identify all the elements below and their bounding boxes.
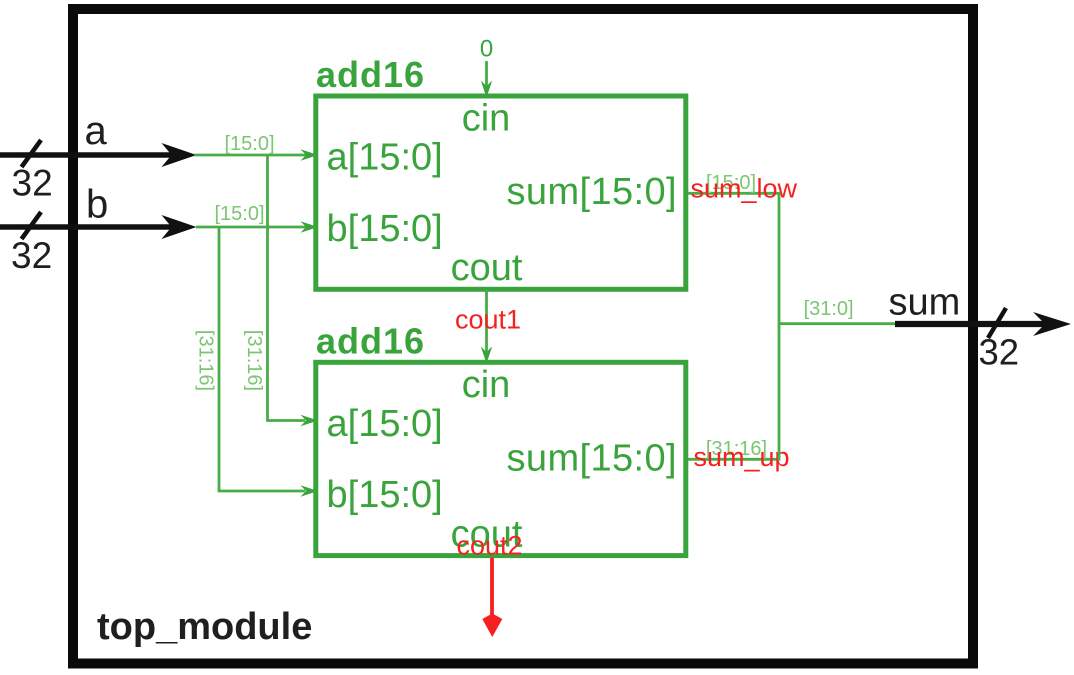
- net b[15:0] wire: [196, 226, 314, 229]
- svg-text:add16: add16: [316, 320, 425, 361]
- net a[15:0] wire: [194, 154, 314, 157]
- svg-text:b[15:0]: b[15:0]: [327, 208, 443, 250]
- arrowhead cin (upper adder): [481, 81, 492, 98]
- net a[31:16] wire (vertical branch to lower adder): [268, 155, 306, 421]
- wire b (32-bit input): [0, 224, 174, 230]
- svg-text:sum_up: sum_up: [694, 442, 790, 472]
- svg-text:a: a: [85, 109, 108, 153]
- arrowhead cin (lower adder): [481, 347, 492, 364]
- arrowhead b[15:0] port: [301, 221, 319, 232]
- output wire sum: [895, 321, 1047, 327]
- svg-text:a[15:0]: a[15:0]: [327, 137, 443, 179]
- arrowhead b[31:16] port: [301, 485, 319, 496]
- module instance add16 (upper adder): [316, 96, 686, 289]
- svg-text:32: 32: [12, 163, 53, 204]
- arrowhead a[15:0] port: [301, 149, 319, 160]
- arrowhead input b: [162, 215, 197, 239]
- svg-text:cout: cout: [451, 247, 523, 289]
- svg-text:add16: add16: [316, 54, 425, 95]
- svg-text:[31:16]: [31:16]: [195, 330, 217, 391]
- wire a (32-bit input): [0, 152, 174, 158]
- net sum_up wire: [688, 458, 780, 461]
- net sum_low wire: [688, 192, 780, 195]
- arrowhead output sum: [1033, 312, 1071, 336]
- svg-text:[15:0]: [15:0]: [224, 133, 274, 155]
- svg-text:b: b: [86, 183, 108, 227]
- svg-text:[31:0]: [31:0]: [804, 298, 854, 320]
- svg-text:sum[15:0]: sum[15:0]: [507, 437, 677, 479]
- svg-text:sum_low: sum_low: [691, 174, 798, 204]
- svg-text:cin: cin: [462, 364, 511, 406]
- svg-text:b[15:0]: b[15:0]: [327, 474, 443, 516]
- svg-text:cout1: cout1: [455, 305, 521, 335]
- svg-text:32: 32: [11, 235, 52, 276]
- net cout1 wire: [485, 290, 488, 352]
- svg-text:cin: cin: [462, 98, 511, 140]
- net sum[31:0] wire: [779, 322, 900, 325]
- svg-text:cout2: cout2: [457, 531, 523, 561]
- arrowhead a[31:16] port: [301, 415, 319, 426]
- svg-text:0: 0: [480, 36, 493, 63]
- svg-text:sum: sum: [889, 282, 961, 324]
- net b[31:16] wire (vertical branch to lower adder): [219, 227, 305, 491]
- bus slash a: [22, 140, 42, 167]
- svg-text:top_module: top_module: [97, 606, 312, 648]
- net cout2 red arrow: [490, 558, 494, 617]
- arrowhead input a: [162, 143, 197, 167]
- net sum junction vertical wire: [778, 192, 781, 461]
- bus slash b: [22, 212, 42, 239]
- svg-text:32: 32: [979, 332, 1020, 373]
- svg-text:[31:16]: [31:16]: [243, 330, 265, 391]
- svg-text:[15:0]: [15:0]: [214, 203, 264, 225]
- svg-text:sum[15:0]: sum[15:0]: [507, 171, 677, 213]
- wire 0 to cin: [485, 61, 488, 86]
- module instance add16 (lower adder): [316, 362, 686, 555]
- svg-text:a[15:0]: a[15:0]: [327, 403, 443, 445]
- bus slash sum: [988, 308, 1006, 338]
